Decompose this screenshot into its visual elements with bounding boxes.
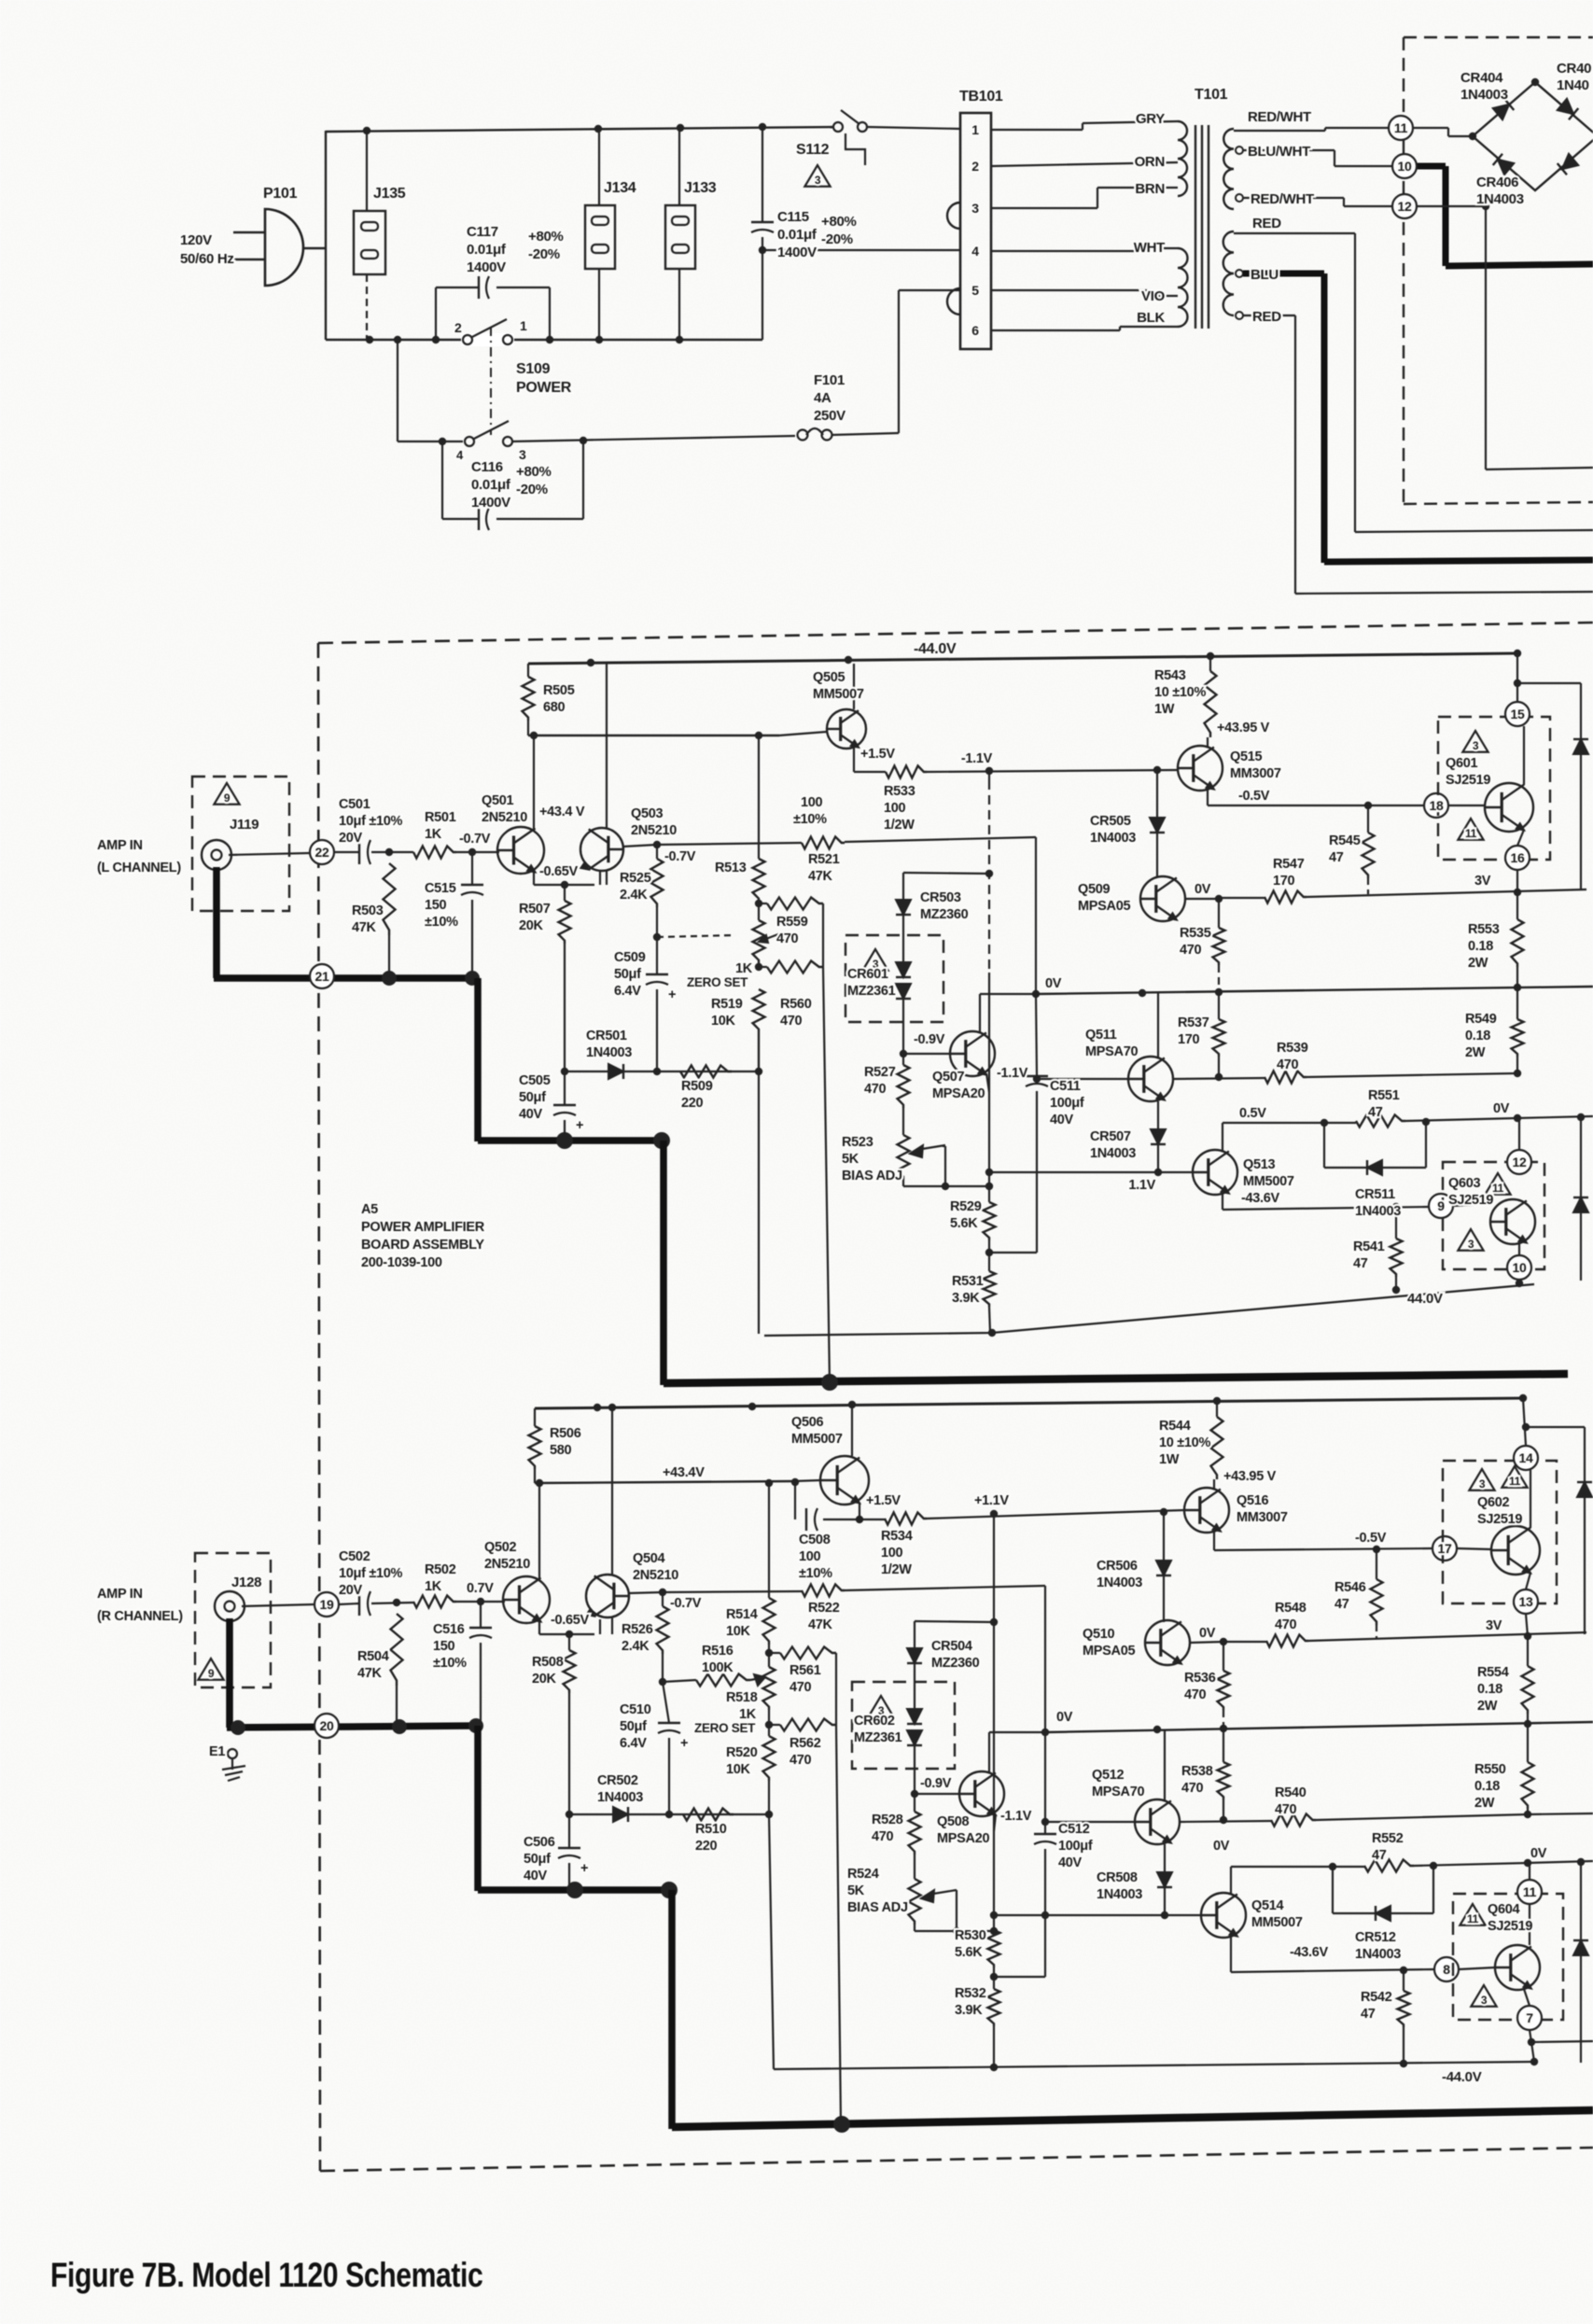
svg-text:100: 100 [801,795,823,810]
svg-text:R519: R519 [711,997,743,1012]
svg-text:Q511: Q511 [1085,1028,1117,1043]
svg-text:9: 9 [1437,1198,1445,1213]
svg-text:-0.7V: -0.7V [459,832,491,847]
svg-text:BLU/WHT: BLU/WHT [1248,144,1310,160]
svg-text:P101: P101 [263,186,298,202]
svg-text:0.18: 0.18 [1465,1029,1490,1043]
svg-text:BOARD ASSEMBLY: BOARD ASSEMBLY [361,1238,484,1253]
svg-text:-43.6V: -43.6V [1290,1945,1329,1960]
svg-text:+43.95 V: +43.95 V [1223,1469,1277,1484]
svg-text:+1.1V: +1.1V [974,1493,1009,1508]
svg-text:R553: R553 [1468,922,1500,937]
svg-text:11: 11 [1394,120,1408,135]
svg-text:680: 680 [543,700,566,715]
svg-text:16: 16 [1511,850,1525,865]
svg-text:MM5007: MM5007 [791,1432,843,1447]
svg-text:ORN: ORN [1135,154,1165,170]
svg-text:R538: R538 [1181,1764,1213,1779]
svg-text:17: 17 [1438,1541,1452,1556]
svg-text:1: 1 [520,318,527,333]
svg-text:Q504: Q504 [633,1551,665,1566]
svg-text:R520: R520 [726,1745,758,1760]
svg-text:R516: R516 [702,1644,734,1659]
svg-text:40V: 40V [1050,1113,1074,1127]
svg-text:5.6K: 5.6K [950,1216,978,1231]
svg-text:Q603: Q603 [1448,1176,1481,1191]
svg-text:0.7V: 0.7V [467,1581,494,1596]
svg-text:T101: T101 [1195,87,1228,103]
svg-text:47: 47 [1353,1256,1368,1271]
svg-text:1N4003: 1N4003 [1355,1204,1401,1219]
svg-text:C501: C501 [339,797,370,812]
svg-text:1N4003: 1N4003 [1090,1146,1136,1161]
svg-text:1N4003: 1N4003 [1460,87,1508,103]
svg-text:R510: R510 [695,1822,727,1837]
svg-text:-0.7V: -0.7V [664,849,696,864]
svg-text:R532: R532 [955,1986,986,2001]
svg-text:470: 470 [790,1753,812,1768]
svg-text:C512: C512 [1058,1822,1090,1837]
svg-text:0.01μf: 0.01μf [467,242,507,258]
svg-text:R550: R550 [1474,1762,1506,1777]
svg-text:1N4003: 1N4003 [1476,191,1524,207]
svg-text:2N5210: 2N5210 [633,1568,678,1583]
svg-text:1N4003: 1N4003 [597,1790,643,1805]
svg-text:1400V: 1400V [471,495,510,511]
svg-text:Q601: Q601 [1446,756,1478,771]
svg-text:+: + [580,1861,588,1876]
svg-text:C510: C510 [620,1702,651,1717]
svg-text:18: 18 [1430,798,1444,813]
svg-text:CR506: CR506 [1097,1559,1138,1574]
svg-text:+80%: +80% [528,229,564,245]
svg-text:1N4003: 1N4003 [1097,1575,1142,1590]
svg-text:470: 470 [1277,1057,1299,1072]
svg-text:1N4003: 1N4003 [1097,1887,1142,1902]
svg-text:1.1V: 1.1V [1128,1178,1155,1193]
svg-text:0V: 0V [1213,1839,1230,1854]
svg-text:R526: R526 [622,1622,653,1637]
svg-text:SJ2519: SJ2519 [1448,1193,1493,1208]
svg-text:R561: R561 [790,1663,821,1678]
svg-text:5K: 5K [847,1883,865,1898]
svg-text:47K: 47K [808,869,833,884]
svg-text:-43.6V: -43.6V [1241,1191,1280,1206]
svg-text:Q604: Q604 [1488,1902,1520,1917]
svg-text:470: 470 [1181,1781,1204,1796]
svg-text:R504: R504 [357,1649,389,1664]
svg-text:470: 470 [780,1014,803,1029]
svg-text:CR404: CR404 [1460,70,1503,86]
svg-text:Q515: Q515 [1230,749,1263,764]
svg-text:MPSA20: MPSA20 [932,1086,985,1101]
svg-text:CR512: CR512 [1355,1930,1396,1945]
svg-text:3V: 3V [1486,1618,1502,1633]
svg-text:470: 470 [1180,943,1202,958]
svg-text:Q602: Q602 [1477,1495,1510,1510]
svg-text:CR601: CR601 [847,967,888,982]
svg-text:3: 3 [1479,1477,1486,1491]
svg-text:100: 100 [884,801,906,816]
svg-text:10 ±10%: 10 ±10% [1159,1435,1210,1450]
svg-text:11: 11 [1467,1912,1479,1925]
svg-text:2W: 2W [1465,1045,1486,1060]
svg-text:-1.1V: -1.1V [961,751,993,766]
svg-text:CR511: CR511 [1355,1187,1395,1202]
svg-text:40V: 40V [1058,1855,1083,1870]
svg-text:C508: C508 [799,1533,831,1547]
svg-text:VIO: VIO [1141,288,1166,304]
svg-text:10μf ±10%: 10μf ±10% [339,1566,403,1581]
svg-text:J135: J135 [373,186,406,202]
svg-text:4: 4 [971,244,979,259]
svg-text:ZERO SET: ZERO SET [694,1721,756,1735]
svg-text:1N4003: 1N4003 [586,1045,632,1060]
svg-text:C505: C505 [519,1073,551,1088]
svg-text:R527: R527 [864,1065,896,1080]
svg-text:MPSA20: MPSA20 [937,1831,989,1846]
svg-text:+80%: +80% [516,464,552,480]
svg-text:R536: R536 [1184,1671,1216,1686]
svg-text:5K: 5K [842,1152,859,1167]
svg-text:11: 11 [1492,1182,1504,1195]
svg-text:47: 47 [1334,1597,1349,1612]
svg-text:R530: R530 [955,1928,986,1943]
svg-text:20V: 20V [339,831,363,846]
svg-text:2W: 2W [1474,1796,1495,1811]
svg-text:J133: J133 [684,180,717,196]
svg-text:40V: 40V [524,1869,548,1883]
svg-text:C115: C115 [777,209,809,225]
svg-text:AMP IN: AMP IN [97,1587,143,1602]
svg-text:MM3007: MM3007 [1230,766,1281,781]
svg-text:SJ2519: SJ2519 [1477,1512,1522,1527]
svg-text:+: + [576,1118,583,1133]
svg-text:-0.65V: -0.65V [551,1613,590,1628]
svg-text:10K: 10K [726,1624,751,1639]
svg-text:CR602: CR602 [854,1714,895,1729]
svg-text:9: 9 [208,1667,215,1680]
svg-text:R539: R539 [1277,1041,1308,1056]
svg-text:50/60 Hz: 50/60 Hz [180,251,234,267]
svg-text:470: 470 [790,1680,812,1695]
svg-text:150: 150 [425,898,447,913]
svg-text:R522: R522 [808,1601,840,1616]
svg-text:R554: R554 [1477,1665,1509,1680]
svg-text:470: 470 [1184,1687,1207,1702]
svg-text:SJ2519: SJ2519 [1488,1919,1532,1934]
svg-text:R543: R543 [1154,668,1186,683]
svg-text:120V: 120V [180,232,212,248]
svg-text:47: 47 [1329,850,1344,865]
svg-text:+43.4 V: +43.4 V [539,805,585,819]
svg-text:CR40: CR40 [1557,61,1591,77]
svg-text:470: 470 [1275,1617,1297,1632]
svg-text:100K: 100K [702,1660,734,1675]
svg-text:47: 47 [1372,1848,1387,1863]
svg-text:R549: R549 [1465,1012,1497,1027]
svg-text:1N4003: 1N4003 [1355,1947,1401,1962]
svg-text:MPSA05: MPSA05 [1078,899,1130,914]
svg-text:CR501: CR501 [586,1029,627,1043]
svg-text:4: 4 [456,448,464,462]
svg-text:100: 100 [881,1546,903,1561]
svg-text:(R CHANNEL): (R CHANNEL) [97,1609,183,1624]
svg-text:TB101: TB101 [959,89,1003,105]
svg-text:0V: 0V [1199,1626,1216,1641]
svg-text:6: 6 [971,323,979,338]
svg-text:Q513: Q513 [1243,1157,1276,1172]
svg-text:CR505: CR505 [1090,814,1131,829]
svg-text:20: 20 [320,1718,334,1733]
svg-text:170: 170 [1273,874,1295,889]
svg-text:250V: 250V [814,408,845,424]
svg-text:R560: R560 [780,997,812,1012]
svg-text:CR504: CR504 [931,1639,972,1654]
svg-text:170: 170 [1178,1032,1200,1047]
svg-text:POWER AMPLIFIER: POWER AMPLIFIER [361,1220,485,1235]
svg-text:47K: 47K [808,1617,833,1632]
svg-text:470: 470 [776,931,799,946]
svg-text:MZ2360: MZ2360 [920,907,969,922]
svg-text:BIAS ADJ: BIAS ADJ [847,1900,908,1915]
svg-text:AMP IN: AMP IN [97,838,143,853]
svg-text:0.01μf: 0.01μf [471,477,511,493]
svg-text:C516: C516 [433,1622,465,1637]
svg-text:MPSA70: MPSA70 [1085,1044,1138,1059]
svg-text:RED/WHT: RED/WHT [1248,109,1311,125]
svg-text:0.5V: 0.5V [1239,1106,1266,1121]
svg-text:12: 12 [1513,1155,1527,1169]
svg-text:Q512: Q512 [1092,1768,1125,1783]
svg-text:R548: R548 [1275,1601,1307,1616]
svg-text:R551: R551 [1368,1088,1400,1103]
svg-text:220: 220 [695,1839,718,1854]
svg-text:2: 2 [454,320,462,335]
svg-text:BIAS ADJ: BIAS ADJ [842,1169,902,1183]
svg-text:50μf: 50μf [620,1719,647,1734]
svg-text:2N5210: 2N5210 [484,1557,530,1572]
svg-text:BRN: BRN [1135,181,1165,197]
svg-text:R523: R523 [842,1135,873,1150]
svg-text:S109: S109 [516,361,551,377]
svg-text:47K: 47K [357,1666,383,1681]
svg-text:R518: R518 [726,1690,758,1705]
svg-text:0.18: 0.18 [1474,1779,1500,1794]
svg-text:Q508: Q508 [937,1814,970,1829]
svg-text:2: 2 [971,159,979,174]
svg-text:R507: R507 [519,902,551,917]
svg-text:R534: R534 [881,1529,913,1544]
svg-text:Q507: Q507 [932,1070,965,1085]
svg-text:-0.65V: -0.65V [539,864,579,879]
svg-text:3: 3 [971,201,979,216]
svg-text:10: 10 [1398,159,1412,174]
svg-text:0.18: 0.18 [1477,1682,1502,1697]
svg-text:Q516: Q516 [1237,1493,1269,1508]
svg-text:CR507: CR507 [1090,1129,1131,1144]
svg-text:-0.7V: -0.7V [670,1596,702,1611]
svg-text:220: 220 [681,1096,704,1111]
svg-text:0V: 0V [1056,1710,1073,1725]
svg-text:470: 470 [1275,1802,1297,1817]
svg-text:8: 8 [1443,1962,1450,1977]
svg-text:C506: C506 [524,1835,555,1850]
svg-text:3: 3 [1481,1994,1488,2007]
svg-text:11: 11 [1523,1884,1537,1899]
svg-text:2N5210: 2N5210 [631,823,677,838]
svg-text:4A: 4A [814,390,831,406]
svg-text:R552: R552 [1372,1831,1404,1846]
svg-text:20V: 20V [339,1583,363,1598]
svg-text:C117: C117 [467,224,498,240]
svg-text:100μf: 100μf [1050,1096,1084,1111]
svg-text:50μf: 50μf [614,967,641,982]
svg-text:0V: 0V [1493,1101,1510,1116]
svg-text:R502: R502 [425,1562,456,1577]
svg-text:R541: R541 [1353,1239,1385,1254]
svg-text:22: 22 [315,845,329,860]
svg-text:R544: R544 [1159,1419,1191,1434]
svg-text:CR503: CR503 [920,890,961,905]
svg-text:11: 11 [1509,1475,1521,1488]
svg-text:5.6K: 5.6K [955,1945,983,1960]
svg-text:150: 150 [433,1639,455,1654]
svg-text:0V: 0V [1045,976,1062,991]
svg-text:S112: S112 [796,142,830,158]
svg-text:Q510: Q510 [1083,1627,1115,1642]
svg-text:2N5210: 2N5210 [482,810,527,825]
svg-text:R540: R540 [1275,1785,1307,1800]
svg-text:CR502: CR502 [597,1773,638,1788]
svg-text:C511: C511 [1050,1079,1081,1094]
svg-text:R535: R535 [1180,926,1211,941]
svg-text:MPSA70: MPSA70 [1092,1785,1144,1799]
svg-text:+43.95 V: +43.95 V [1217,721,1270,735]
svg-text:C502: C502 [339,1549,370,1564]
svg-text:±10%: ±10% [793,812,827,827]
svg-text:6.4V: 6.4V [614,984,641,999]
svg-text:Q501: Q501 [482,793,514,808]
svg-text:5: 5 [971,283,979,298]
svg-text:-20%: -20% [821,231,853,247]
svg-text:R537: R537 [1178,1015,1209,1030]
svg-text:1W: 1W [1154,702,1175,717]
svg-text:POWER: POWER [516,380,572,396]
svg-text:R513: R513 [715,861,747,875]
svg-text:10μf ±10%: 10μf ±10% [339,814,403,829]
svg-text:J128: J128 [231,1575,261,1590]
svg-text:20K: 20K [532,1672,557,1687]
svg-text:±10%: ±10% [799,1566,832,1581]
svg-text:CR406: CR406 [1476,175,1518,190]
svg-text:Q505: Q505 [813,670,845,685]
svg-text:0.18: 0.18 [1468,939,1493,954]
svg-text:MZ2360: MZ2360 [931,1656,980,1671]
svg-text:-0.5V: -0.5V [1355,1531,1387,1546]
svg-text:Q506: Q506 [791,1415,824,1430]
svg-text:1K: 1K [735,961,753,976]
svg-text:R559: R559 [776,915,808,930]
svg-text:MM5007: MM5007 [813,687,864,702]
svg-text:0V: 0V [1530,1846,1547,1861]
svg-text:MZ2361: MZ2361 [847,984,896,999]
svg-text:MPSA05: MPSA05 [1083,1644,1135,1659]
svg-text:10K: 10K [711,1014,736,1029]
svg-text:580: 580 [550,1443,572,1458]
svg-text:470: 470 [872,1829,894,1844]
svg-text:3: 3 [1468,1238,1474,1251]
svg-text:GRY: GRY [1136,111,1165,127]
svg-text:9: 9 [224,791,231,805]
svg-text:6.4V: 6.4V [620,1736,647,1751]
svg-text:100μf: 100μf [1058,1839,1093,1854]
svg-text:3V: 3V [1474,874,1491,889]
svg-text:±10%: ±10% [425,915,458,930]
svg-text:MM5007: MM5007 [1251,1915,1303,1930]
svg-text:WHT: WHT [1134,240,1165,256]
svg-text:1N40: 1N40 [1557,77,1589,93]
svg-text:1: 1 [971,122,979,137]
svg-text:-0.9V: -0.9V [920,1776,952,1791]
svg-text:-0.9V: -0.9V [914,1032,945,1047]
svg-text:10 ±10%: 10 ±10% [1154,685,1206,700]
svg-text:3: 3 [1473,739,1479,752]
svg-text:2W: 2W [1477,1699,1498,1714]
svg-text:50μf: 50μf [519,1090,546,1105]
svg-text:BLU: BLU [1251,267,1279,283]
svg-text:E1: E1 [209,1744,225,1759]
svg-text:3: 3 [815,174,821,187]
svg-text:MM3007: MM3007 [1237,1510,1288,1525]
svg-text:2W: 2W [1468,956,1488,971]
svg-text:R545: R545 [1329,833,1361,848]
svg-text:0V: 0V [1195,882,1211,897]
svg-text:470: 470 [864,1082,887,1097]
svg-text:1W: 1W [1159,1452,1180,1467]
svg-text:40V: 40V [519,1107,543,1122]
svg-text:R529: R529 [950,1199,982,1214]
svg-text:1K: 1K [425,1579,442,1594]
svg-text:RED/WHT: RED/WHT [1251,191,1314,207]
svg-text:20K: 20K [519,918,544,933]
svg-text:11: 11 [1465,827,1477,840]
svg-text:+1.5V: +1.5V [866,1493,901,1508]
svg-text:10: 10 [1513,1260,1527,1275]
svg-text:MM5007: MM5007 [1243,1174,1294,1189]
svg-text:R533: R533 [884,784,915,799]
svg-text:R503: R503 [352,903,384,918]
svg-text:15: 15 [1511,707,1525,721]
svg-text:F101: F101 [814,372,845,388]
svg-text:R562: R562 [790,1736,821,1751]
svg-text:R524: R524 [847,1867,879,1882]
svg-text:R542: R542 [1361,1990,1392,2005]
svg-text:Q514: Q514 [1251,1898,1284,1913]
svg-text:BLK: BLK [1137,310,1165,326]
svg-text:R506: R506 [550,1426,581,1441]
svg-text:1400V: 1400V [467,259,506,275]
svg-text:Q509: Q509 [1078,882,1111,897]
svg-text:7: 7 [1526,2010,1533,2025]
svg-text:1/2W: 1/2W [881,1562,912,1577]
svg-text:1/2W: 1/2W [884,818,915,833]
svg-text:-44.0V: -44.0V [914,641,957,657]
svg-text:3.9K: 3.9K [952,1291,980,1306]
svg-text:R501: R501 [425,810,456,825]
svg-text:1K: 1K [739,1707,757,1722]
svg-text:J134: J134 [604,180,636,196]
